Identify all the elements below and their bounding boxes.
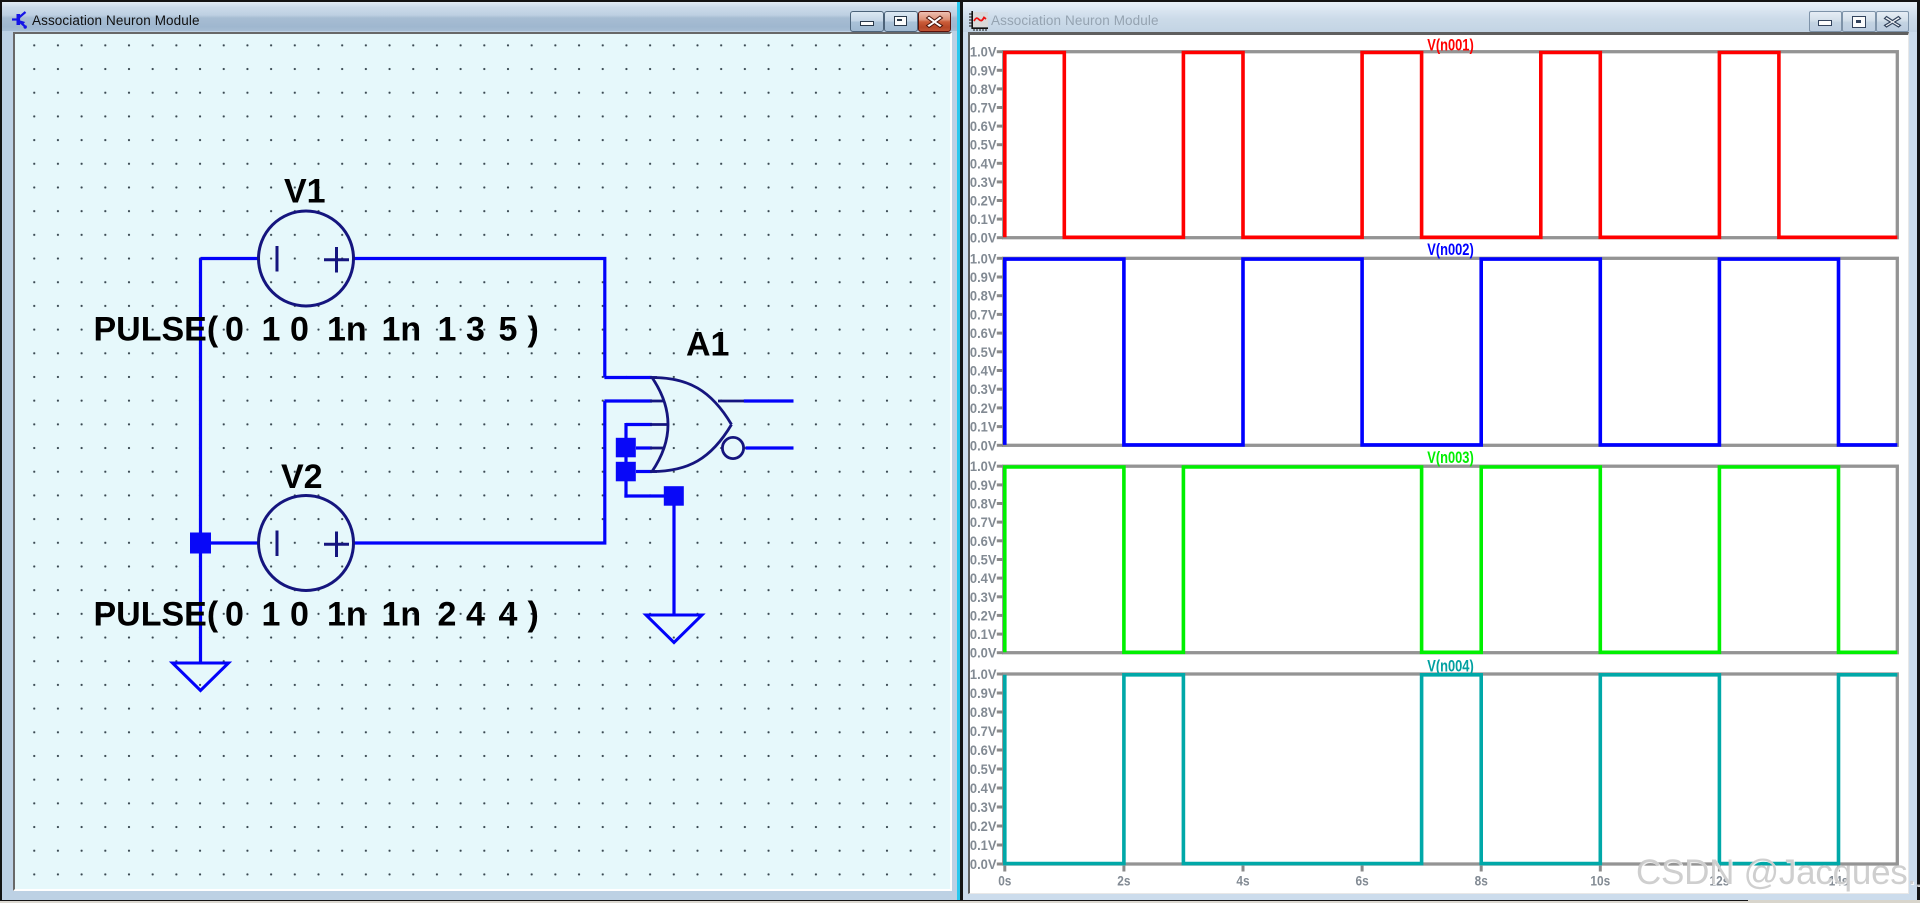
svg-text:1: 1 xyxy=(438,311,457,349)
svg-text:0.4V: 0.4V xyxy=(970,571,997,586)
svg-text:0.1V: 0.1V xyxy=(970,212,997,227)
svg-text:): ) xyxy=(528,596,539,634)
svg-text:0.3V: 0.3V xyxy=(970,382,997,397)
svg-text:0: 0 xyxy=(290,596,309,634)
svg-text:V(n001): V(n001) xyxy=(1427,36,1474,54)
svg-text:0.6V: 0.6V xyxy=(970,326,997,341)
svg-text:1: 1 xyxy=(262,311,281,349)
svg-text:0s: 0s xyxy=(998,874,1011,889)
svg-text:0.4V: 0.4V xyxy=(970,364,997,379)
svg-text:V1: V1 xyxy=(284,173,326,211)
svg-text:V(n004): V(n004) xyxy=(1427,657,1474,675)
svg-text:1n: 1n xyxy=(382,311,422,349)
svg-text:V2: V2 xyxy=(281,458,323,496)
svg-text:0.9V: 0.9V xyxy=(970,270,997,285)
svg-text:0.0V: 0.0V xyxy=(970,438,997,453)
svg-text:0.0V: 0.0V xyxy=(970,646,997,661)
svg-text:2: 2 xyxy=(438,596,457,634)
svg-text:10s: 10s xyxy=(1590,874,1610,889)
svg-text:V(n002): V(n002) xyxy=(1427,241,1474,259)
svg-text:0.2V: 0.2V xyxy=(970,819,997,834)
svg-text:PULSE(: PULSE( xyxy=(94,311,219,349)
svg-text:0: 0 xyxy=(290,311,309,349)
svg-text:1: 1 xyxy=(262,596,281,634)
svg-text:0.1V: 0.1V xyxy=(970,838,997,853)
svg-text:0.2V: 0.2V xyxy=(970,194,997,209)
svg-text:0.3V: 0.3V xyxy=(970,590,997,605)
svg-text:1.0V: 1.0V xyxy=(970,459,997,474)
svg-text:4: 4 xyxy=(466,596,485,634)
svg-text:1n: 1n xyxy=(382,596,422,634)
svg-text:0.0V: 0.0V xyxy=(970,231,997,246)
svg-text:5: 5 xyxy=(499,311,518,349)
svg-text:1.0V: 1.0V xyxy=(970,667,997,682)
svg-text:1.0V: 1.0V xyxy=(970,251,997,266)
svg-text:): ) xyxy=(528,311,539,349)
svg-text:1n: 1n xyxy=(327,596,367,634)
svg-text:4: 4 xyxy=(499,596,518,634)
svg-text:0.8V: 0.8V xyxy=(970,705,997,720)
svg-text:0.8V: 0.8V xyxy=(970,497,997,512)
svg-text:0.5V: 0.5V xyxy=(970,345,997,360)
svg-text:0: 0 xyxy=(225,311,244,349)
svg-text:6s: 6s xyxy=(1356,874,1369,889)
svg-text:0.5V: 0.5V xyxy=(970,762,997,777)
svg-text:V(n003): V(n003) xyxy=(1427,449,1474,467)
svg-text:0.9V: 0.9V xyxy=(970,63,997,78)
svg-text:0.7V: 0.7V xyxy=(970,724,997,739)
svg-text:0.9V: 0.9V xyxy=(970,478,997,493)
svg-text:0.5V: 0.5V xyxy=(970,553,997,568)
svg-text:3: 3 xyxy=(466,311,485,349)
svg-text:0.6V: 0.6V xyxy=(970,743,997,758)
svg-text:4s: 4s xyxy=(1236,874,1249,889)
svg-text:0.2V: 0.2V xyxy=(970,401,997,416)
svg-text:0.0V: 0.0V xyxy=(970,857,997,872)
svg-text:0: 0 xyxy=(225,596,244,634)
svg-text:0.1V: 0.1V xyxy=(970,627,997,642)
svg-text:0.1V: 0.1V xyxy=(970,420,997,435)
svg-text:0.7V: 0.7V xyxy=(970,101,997,116)
svg-text:1.0V: 1.0V xyxy=(970,45,997,60)
svg-text:0.5V: 0.5V xyxy=(970,138,997,153)
svg-text:0.7V: 0.7V xyxy=(970,515,997,530)
svg-text:8s: 8s xyxy=(1475,874,1488,889)
svg-text:0.4V: 0.4V xyxy=(970,781,997,796)
svg-text:0.9V: 0.9V xyxy=(970,686,997,701)
svg-text:0.8V: 0.8V xyxy=(970,289,997,304)
svg-text:0.2V: 0.2V xyxy=(970,608,997,623)
svg-text:0.8V: 0.8V xyxy=(970,82,997,97)
svg-text:2s: 2s xyxy=(1117,874,1130,889)
svg-text:0.3V: 0.3V xyxy=(970,800,997,815)
svg-text:0.4V: 0.4V xyxy=(970,156,997,171)
svg-text:0.3V: 0.3V xyxy=(970,175,997,190)
svg-text:0.7V: 0.7V xyxy=(970,307,997,322)
svg-text:1n: 1n xyxy=(327,311,367,349)
svg-text:PULSE(: PULSE( xyxy=(94,596,219,634)
svg-text:0.6V: 0.6V xyxy=(970,119,997,134)
svg-text:A1: A1 xyxy=(686,326,729,364)
svg-text:0.6V: 0.6V xyxy=(970,534,997,549)
